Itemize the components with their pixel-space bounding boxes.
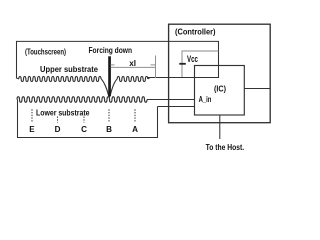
Vcc bar symbol [179,63,186,65]
wire lower box right edge to IC [158,106,195,108]
wavy-to-wire joiner [148,78,150,80]
upper substrate circuit loop [17,41,219,78]
electrode dashed line C [83,117,85,123]
upper substrate wavy line left part [19,76,101,81]
lower substrate wavy line [17,97,147,103]
svg-text:(Controller): (Controller) [175,28,216,37]
svg-text:E: E [29,125,35,134]
controller box [169,24,271,123]
wire IC right to controller right [244,88,270,90]
Vcc gray wire to loop right edge [182,51,219,63]
wire lower substrate to A_in [147,99,195,101]
svg-text:Vcc: Vcc [187,54,198,64]
svg-text:(IC): (IC) [214,85,226,94]
IC box [195,66,245,116]
upper substrate wavy line right part [117,76,148,81]
forcing down arrow shaft [108,56,111,96]
svg-text:A_in: A_in [199,94,212,104]
svg-text:Lower substrate: Lower substrate [36,108,90,117]
svg-text:Forcing down: Forcing down [89,45,133,55]
electrode dashed line A [134,109,136,122]
svg-text:(Touchscreen): (Touchscreen) [25,47,66,57]
wire IC bottom to host [219,115,221,139]
svg-text:To the Host.: To the Host. [206,143,245,152]
wire corner into wave [16,78,19,79]
lower substrate box [18,100,158,138]
svg-text:Upper substrate: Upper substrate [40,64,98,74]
svg-text:D: D [55,125,61,134]
svg-text:C: C [81,125,87,134]
svg-text:B: B [106,125,112,134]
Vcc stem to upper wire [181,65,183,77]
electrode dashed line E [31,109,33,122]
electrode dashed line B [108,109,110,122]
electrode dashed line D [57,117,59,123]
xl dimension line [111,56,156,79]
svg-text:xl: xl [129,58,136,68]
svg-text:A: A [132,125,138,134]
upper substrate dip at press point [101,79,117,97]
